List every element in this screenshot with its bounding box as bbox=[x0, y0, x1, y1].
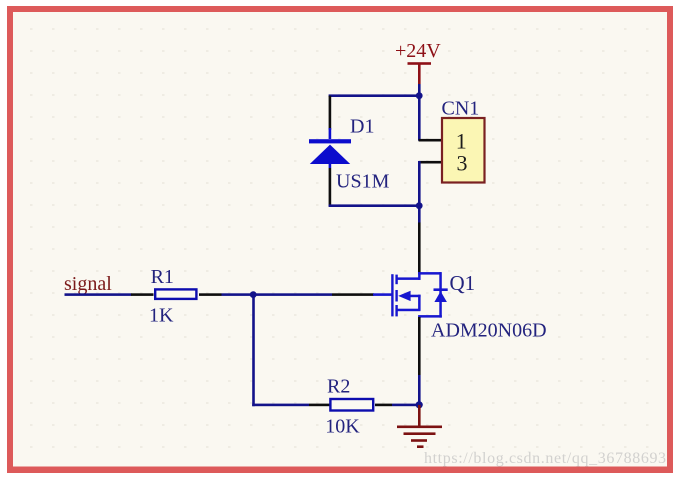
ground bbox=[397, 405, 442, 448]
svg-text:3: 3 bbox=[457, 150, 468, 175]
node: mid junction bbox=[416, 202, 423, 209]
gate lead bbox=[373, 293, 392, 296]
drain lead horizontal bbox=[396, 277, 420, 280]
gate bar bbox=[391, 274, 393, 316]
wire: R1 to gate junction and onward bbox=[222, 293, 333, 296]
label Q1 bbox=[450, 271, 476, 295]
wire: signal to R1 bbox=[65, 293, 132, 296]
connector CN1 bbox=[442, 98, 485, 183]
drain top horizontal to right vertical bbox=[418, 272, 441, 275]
svg-text:+24V: +24V bbox=[395, 40, 441, 62]
bottom pin (black) bbox=[329, 168, 332, 206]
transistor Q1 (N-MOSFET) bbox=[373, 272, 448, 318]
right vertical bbox=[439, 272, 442, 318]
source lead bottom bbox=[396, 309, 420, 312]
pin: Q1 source (black) bbox=[418, 317, 421, 375]
wire: diode bottom horizontal to rail bbox=[329, 204, 421, 207]
pin: R2 right (black) bbox=[375, 404, 392, 407]
node: gate junction bbox=[250, 291, 257, 298]
wire: rail down to CN1 pin 1 level bbox=[418, 96, 421, 141]
top pin (black) bbox=[329, 96, 332, 130]
svg-text:ADM20N06D: ADM20N06D bbox=[431, 319, 547, 341]
svg-text:signal: signal bbox=[64, 273, 112, 295]
node: bottom junction bbox=[416, 401, 423, 408]
label R2 bbox=[327, 375, 350, 397]
middle vertical stub bbox=[418, 295, 421, 311]
net label signal bbox=[64, 273, 112, 295]
node: top junction bbox=[416, 92, 423, 99]
source middle lead bbox=[410, 295, 421, 298]
cathode bar bbox=[309, 139, 351, 143]
wire: CN1 pin 3 down to bottom junction bbox=[418, 161, 421, 206]
anode triangle bbox=[310, 145, 350, 164]
resistor R2 bbox=[330, 399, 373, 411]
channel segment bottom bbox=[395, 305, 397, 316]
bottom lead (blue) bbox=[329, 164, 332, 168]
label 1K bbox=[149, 305, 174, 327]
svg-text:https://blog.csdn.net/qq_36788: https://blog.csdn.net/qq_36788693 bbox=[424, 450, 667, 467]
wire: power stub down to top junction bbox=[418, 84, 421, 97]
pin: Q1 drain (black) bbox=[418, 223, 421, 273]
resistor R1 bbox=[155, 289, 196, 299]
wire: junction down to Q1 drain pin bbox=[418, 206, 421, 223]
drain corner vertical bbox=[418, 272, 421, 280]
svg-text:10K: 10K bbox=[325, 416, 360, 438]
body diode triangle bbox=[434, 291, 447, 302]
power port +24V bbox=[395, 40, 441, 84]
pin: Q1 gate (black) bbox=[332, 293, 374, 296]
pin 1 of CN1 (black pin wire) bbox=[419, 139, 442, 142]
svg-text:1K: 1K bbox=[149, 305, 174, 327]
diode D1 US1M bbox=[309, 96, 351, 207]
label 10K bbox=[325, 416, 360, 438]
wire: R2 to bottom junction bbox=[392, 404, 419, 407]
body diode cathode bar bbox=[434, 288, 448, 291]
label US1M bbox=[336, 170, 390, 192]
svg-text:R2: R2 bbox=[327, 375, 350, 397]
source arrow bbox=[398, 291, 410, 301]
svg-text:CN1: CN1 bbox=[442, 98, 480, 120]
wire: left branch horizontal to R2 bbox=[252, 404, 309, 407]
label ADM20N06D bbox=[431, 319, 547, 341]
wire: top horizontal rail (diode top to +24V junction) bbox=[329, 94, 421, 97]
pin: R2 left (black) bbox=[309, 404, 331, 407]
wire: gate junction down left branch bbox=[252, 295, 255, 407]
label D1 bbox=[350, 115, 374, 137]
svg-text:US1M: US1M bbox=[336, 170, 390, 192]
channel segment middle bbox=[395, 290, 397, 302]
svg-text:Q1: Q1 bbox=[450, 271, 476, 295]
label R1 bbox=[151, 266, 174, 288]
pin 3 of CN1 (black pin wire) bbox=[419, 161, 442, 164]
top lead (blue) bbox=[329, 128, 332, 139]
svg-text:D1: D1 bbox=[350, 115, 374, 137]
pin: R1 left (black) bbox=[131, 293, 154, 296]
watermark bbox=[424, 450, 667, 467]
svg-text:R1: R1 bbox=[151, 266, 174, 288]
wire: source pin down to bottom junction bbox=[418, 375, 421, 405]
channel segment top bbox=[395, 275, 397, 285]
source bottom horizontal bbox=[418, 315, 442, 318]
pin: R1 right (black) bbox=[199, 293, 222, 296]
